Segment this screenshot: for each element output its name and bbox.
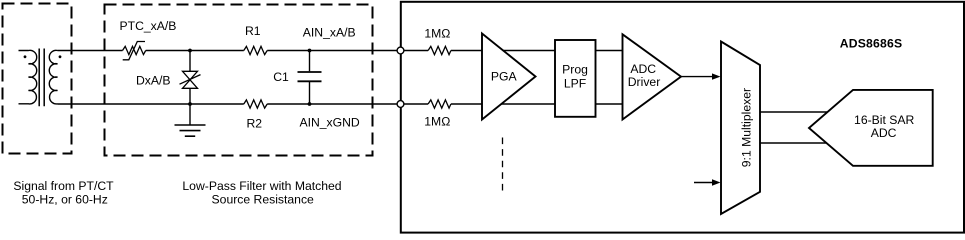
- wire top (1M to PGA and LPF): [451, 50, 555, 52]
- svg-text:ADC: ADC: [871, 126, 897, 140]
- TVS diode DxA/B upper triangle: [183, 71, 198, 80]
- resistor 1M bottom: [428, 100, 451, 108]
- svg-text:AIN_xA/B: AIN_xA/B: [303, 26, 356, 40]
- block 9:1 Multiplexer: [721, 42, 760, 215]
- svg-text:PTC_xA/B: PTC_xA/B: [120, 19, 177, 33]
- svg-text:Driver: Driver: [628, 75, 661, 89]
- transformer core: [39, 49, 44, 107]
- capacitor C1: [309, 51, 311, 105]
- transformer polarity dot left: [24, 55, 27, 58]
- transformer T1 primary winding: [19, 50, 37, 104]
- ground: [175, 125, 206, 136]
- wire top (R1 to 1M resistor): [267, 50, 428, 52]
- svg-text:1MΩ: 1MΩ: [424, 27, 450, 41]
- junction at C1 top: [308, 49, 312, 53]
- op-amp PGA: [482, 34, 536, 120]
- block Prog LPF: [555, 40, 596, 117]
- svg-text:16-Bit SAR: 16-Bit SAR: [854, 113, 914, 127]
- wire ADC driver to mux with arrow: [681, 76, 713, 78]
- svg-text:AIN_xGND: AIN_xGND: [299, 115, 359, 129]
- wire bottom (transformer to R2): [58, 103, 244, 105]
- block 16-Bit SAR ADC: [809, 90, 933, 166]
- svg-text:Low-Pass Filter with Matched: Low-Pass Filter with Matched: [182, 179, 341, 193]
- svg-text:R1: R1: [245, 24, 261, 38]
- junction at C1 bottom: [308, 102, 312, 106]
- node circle bottom: [397, 101, 404, 108]
- svg-text:LPF: LPF: [564, 77, 586, 91]
- wire top (LPF to ADC driver): [595, 50, 623, 52]
- wire bottom (LPF to ADC driver): [595, 103, 623, 105]
- ellipsis dashed line (more channels): [502, 138, 504, 195]
- node circle top: [397, 47, 404, 54]
- svg-text:Source Resistance: Source Resistance: [212, 192, 315, 206]
- PTC strike line: [123, 42, 145, 60]
- wire top (PTC to R1): [146, 50, 244, 52]
- wire mux to SAR top: [760, 111, 836, 113]
- TVS diode slash: [180, 75, 201, 85]
- junction at DxA/B top: [188, 49, 192, 53]
- svg-text:ADS8686S: ADS8686S: [840, 37, 903, 51]
- op-amp ADC Driver: [623, 34, 682, 119]
- svg-text:1MΩ: 1MΩ: [424, 115, 450, 129]
- resistor 1M top: [428, 46, 451, 54]
- resistor R1: [244, 46, 267, 54]
- dashed box: low-pass filter: [105, 5, 373, 156]
- svg-text:9:1 Multiplexer: 9:1 Multiplexer: [740, 88, 754, 167]
- junction at DxA/B bottom: [188, 102, 192, 106]
- wire mux to SAR bottom: [760, 142, 836, 144]
- resistor PTC_xA/B: [123, 46, 146, 54]
- wire TVS branch: [189, 51, 191, 126]
- TVS diode DxA/B lower triangle: [183, 80, 198, 89]
- box ADS8686S: [401, 2, 964, 233]
- svg-text:C1: C1: [273, 70, 289, 84]
- wire lower arrow into mux: [694, 182, 713, 184]
- svg-text:R2: R2: [247, 116, 263, 130]
- transformer T1 secondary winding: [49, 50, 57, 104]
- svg-text:PGA: PGA: [491, 69, 518, 83]
- transformer polarity dot right: [59, 55, 62, 58]
- svg-text:Signal from PT/CT: Signal from PT/CT: [13, 179, 114, 193]
- svg-text:ADC: ADC: [630, 62, 656, 76]
- wire top (transformer to PTC): [58, 50, 123, 52]
- svg-text:Prog: Prog: [562, 63, 588, 77]
- wire bottom (1M to PGA and LPF): [451, 103, 555, 105]
- dashed box: signal source: [3, 4, 72, 154]
- svg-text:50-Hz, or 60-Hz: 50-Hz, or 60-Hz: [22, 193, 108, 207]
- resistor R2: [244, 100, 267, 108]
- svg-text:DxA/B: DxA/B: [136, 74, 171, 88]
- wire bottom (R2 to 1M resistor): [267, 103, 428, 105]
